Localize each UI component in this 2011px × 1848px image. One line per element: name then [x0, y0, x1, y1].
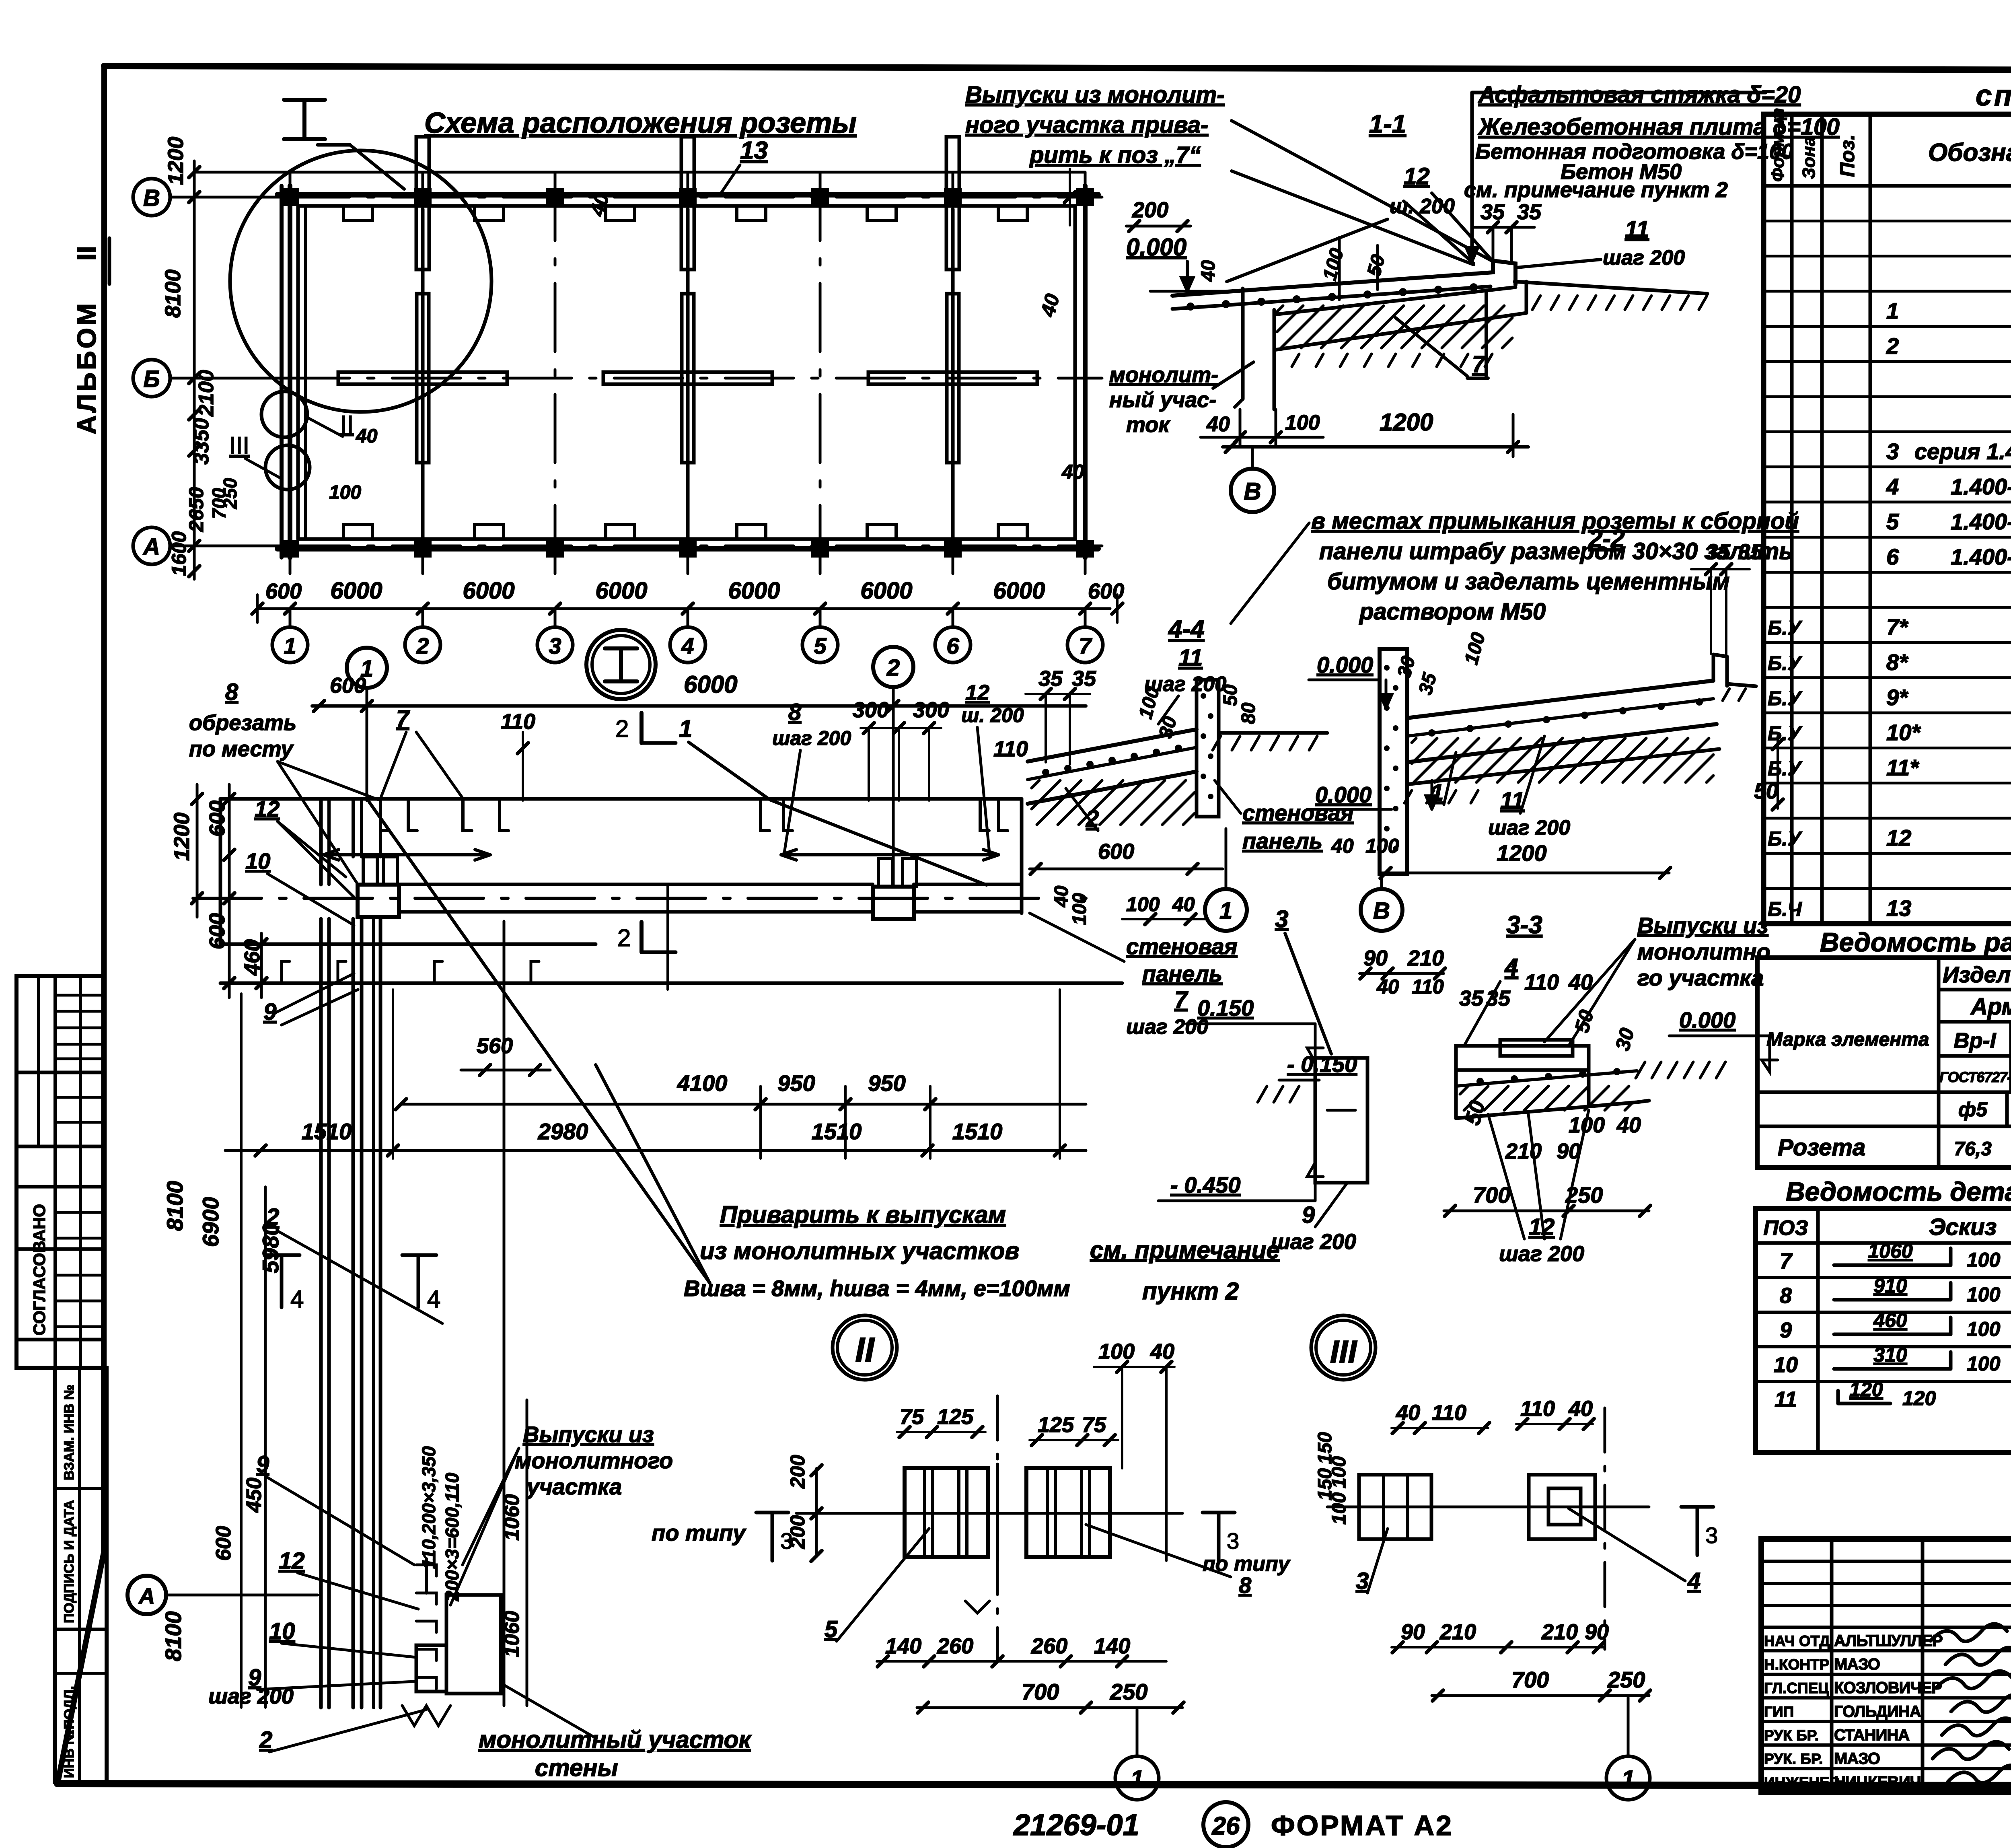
svg-text:35: 35 — [1517, 200, 1542, 224]
svg-text:110: 110 — [1524, 970, 1559, 994]
svg-text:8: 8 — [788, 699, 802, 725]
svg-text:200×3=600,110: 200×3=600,110 — [442, 1473, 463, 1601]
svg-text:Б.У: Б.У — [1768, 722, 1803, 745]
svg-text:ИНЖЕНЕР: ИНЖЕНЕР — [1764, 1774, 1840, 1791]
svg-text:4100: 4100 — [677, 1070, 728, 1096]
svg-text:40: 40 — [1331, 835, 1354, 857]
svg-text:9*: 9* — [1886, 685, 1908, 710]
svg-text:РУК БР.: РУК БР. — [1764, 1727, 1819, 1743]
svg-text:ток: ток — [1126, 413, 1170, 437]
svg-text:1: 1 — [1621, 1766, 1635, 1792]
svg-text:200: 200 — [786, 1455, 809, 1489]
svg-text:7*: 7* — [1886, 614, 1908, 640]
svg-text:Приварить к выпускам: Приварить к выпускам — [720, 1201, 1006, 1228]
svg-text:8100: 8100 — [161, 270, 185, 318]
svg-text:обрезать: обрезать — [189, 711, 296, 735]
svg-text:1.400-15: 1.400-15 — [1951, 509, 2011, 534]
svg-text:35: 35 — [1480, 200, 1505, 224]
svg-text:2: 2 — [1886, 333, 1899, 358]
svg-text:2: 2 — [615, 715, 629, 742]
svg-text:4: 4 — [290, 1286, 304, 1313]
svg-text:шаг 200: шаг 200 — [1603, 246, 1685, 270]
svg-text:2: 2 — [266, 1204, 279, 1230]
svg-text:250: 250 — [1110, 1679, 1147, 1704]
svg-text:участка: участка — [526, 1474, 622, 1499]
svg-text:панель: панель — [1142, 961, 1222, 986]
svg-text:7: 7 — [1079, 633, 1092, 659]
svg-text:6000: 6000 — [595, 578, 647, 604]
svg-text:В: В — [1244, 478, 1261, 505]
svg-text:II: II — [855, 1331, 875, 1369]
svg-text:1600: 1600 — [168, 531, 190, 576]
svg-text:6000: 6000 — [860, 578, 912, 604]
svg-text:1.400-15: 1.400-15 — [1951, 474, 2011, 499]
svg-text:210: 210 — [1407, 946, 1444, 970]
svg-text:140: 140 — [1094, 1634, 1130, 1658]
svg-text:Асфальтовая стяжка δ=20: Асфальтовая стяжка δ=20 — [1478, 82, 1801, 108]
svg-text:7: 7 — [1472, 351, 1486, 377]
svg-text:12: 12 — [1886, 825, 1911, 850]
svg-text:50: 50 — [1754, 779, 1778, 803]
svg-text:40: 40 — [356, 426, 378, 447]
svg-text:1510: 1510 — [952, 1119, 1003, 1144]
svg-text:600: 600 — [205, 913, 229, 949]
svg-text:Ведомость деталей: Ведомость деталей — [1786, 1177, 2011, 1206]
svg-text:100: 100 — [1328, 1492, 1350, 1525]
svg-text:40: 40 — [1206, 413, 1230, 436]
svg-text:ГЛ.СПЕЦ: ГЛ.СПЕЦ — [1764, 1680, 1829, 1696]
svg-text:210: 210 — [1505, 1139, 1542, 1163]
svg-text:стены: стены — [535, 1754, 618, 1781]
svg-text:ФОРМАТ А2: ФОРМАТ А2 — [1271, 1810, 1453, 1841]
svg-text:700: 700 — [1022, 1679, 1059, 1704]
svg-text:ГОЛЬДИНА: ГОЛЬДИНА — [1834, 1703, 1921, 1720]
svg-text:600: 600 — [212, 1526, 235, 1561]
svg-text:100: 100 — [1328, 1456, 1350, 1488]
svg-text:спецификация розеты: спецификация розеты — [1976, 80, 2011, 112]
svg-text:40: 40 — [1061, 461, 1084, 483]
svg-text:10: 10 — [245, 848, 270, 874]
svg-text:го участка: го участка — [1637, 965, 1764, 990]
svg-text:шаг 200: шаг 200 — [772, 727, 851, 749]
svg-text:ИНВ №ПОДЛ.: ИНВ №ПОДЛ. — [62, 1686, 77, 1778]
svg-text:100: 100 — [1967, 1318, 2001, 1340]
svg-text:450: 450 — [243, 1478, 266, 1513]
svg-text:120: 120 — [1849, 1378, 1883, 1401]
svg-text:8: 8 — [225, 679, 239, 705]
svg-text:III: III — [1330, 1334, 1357, 1370]
svg-text:ный учас-: ный учас- — [1109, 388, 1216, 412]
svg-text:4: 4 — [427, 1286, 440, 1313]
svg-text:300: 300 — [853, 698, 889, 722]
svg-text:9: 9 — [256, 1451, 269, 1478]
svg-text:III: III — [229, 432, 249, 459]
svg-text:стеновая: стеновая — [1126, 934, 1238, 959]
svg-text:см. примечание: см. примечание — [1090, 1237, 1280, 1264]
svg-text:Изделия арматурные: Изделия арматурные — [1943, 962, 2011, 987]
svg-text:II: II — [72, 246, 101, 261]
svg-text:7: 7 — [1780, 1249, 1793, 1273]
svg-text:по месту: по месту — [189, 737, 294, 761]
svg-text:АЛЬТШУЛЛЕР: АЛЬТШУЛЛЕР — [1834, 1632, 1943, 1650]
svg-text:Выпуски из монолит-: Выпуски из монолит- — [965, 82, 1225, 108]
svg-text:700: 700 — [1473, 1182, 1510, 1208]
svg-text:6000: 6000 — [728, 578, 780, 604]
svg-text:2100: 2100 — [195, 370, 218, 417]
svg-text:ГИП: ГИП — [1764, 1704, 1794, 1720]
svg-text:В: В — [143, 185, 160, 211]
svg-text:80: 80 — [1238, 702, 1259, 724]
svg-text:из монолитных участков: из монолитных участков — [700, 1237, 1019, 1264]
svg-text:40: 40 — [1376, 975, 1399, 998]
svg-text:600: 600 — [265, 579, 302, 603]
svg-text:10*: 10* — [1886, 720, 1921, 745]
svg-text:260: 260 — [1031, 1634, 1067, 1658]
svg-text:пункт 2: пункт 2 — [1142, 1278, 1239, 1305]
svg-text:100: 100 — [1967, 1352, 2001, 1375]
svg-text:2980: 2980 — [538, 1119, 588, 1144]
svg-text:3: 3 — [1356, 1568, 1369, 1594]
svg-text:1: 1 — [1219, 898, 1232, 924]
svg-text:40: 40 — [1172, 893, 1195, 916]
svg-text:110: 110 — [993, 737, 1028, 761]
svg-text:100: 100 — [1098, 1340, 1135, 1364]
svg-text:100: 100 — [1126, 893, 1160, 916]
svg-text:120: 120 — [1902, 1387, 1936, 1410]
svg-text:110,200×3,350: 110,200×3,350 — [418, 1446, 439, 1569]
svg-text:210: 210 — [1439, 1620, 1476, 1644]
svg-text:Б.Ч: Б.Ч — [1768, 898, 1802, 920]
svg-text:125: 125 — [937, 1405, 974, 1429]
svg-text:11*: 11* — [1886, 755, 1919, 780]
svg-text:Б.У: Б.У — [1768, 827, 1803, 850]
svg-text:0.000: 0.000 — [1679, 1007, 1735, 1033]
svg-text:МАЗО: МАЗО — [1834, 1750, 1880, 1768]
svg-text:см. примечание пункт 2: см. примечание пункт 2 — [1464, 178, 1728, 202]
svg-text:Марка элемента: Марка элемента — [1766, 1029, 1929, 1050]
svg-text:8: 8 — [1239, 1572, 1252, 1598]
svg-text:260: 260 — [937, 1634, 973, 1658]
svg-text:5: 5 — [814, 633, 827, 659]
svg-text:6900: 6900 — [198, 1197, 223, 1247]
svg-text:- 0.450: - 0.450 — [1170, 1172, 1240, 1198]
svg-text:0.150: 0.150 — [1197, 995, 1254, 1021]
svg-text:шаг 200: шаг 200 — [1488, 816, 1570, 840]
svg-text:75: 75 — [1082, 1413, 1106, 1437]
svg-text:монолитного: монолитного — [515, 1448, 673, 1473]
svg-text:А: А — [138, 1583, 155, 1609]
svg-text:310: 310 — [1873, 1344, 1907, 1366]
svg-text:9: 9 — [1780, 1318, 1792, 1342]
svg-text:12: 12 — [255, 796, 280, 821]
svg-text:НИЦКЕВИЧ: НИЦКЕВИЧ — [1834, 1774, 1921, 1791]
svg-text:3: 3 — [1227, 1528, 1239, 1554]
svg-text:ш. 200: ш. 200 — [961, 704, 1024, 726]
svg-text:7: 7 — [1174, 987, 1189, 1013]
svg-text:110: 110 — [1432, 1401, 1466, 1425]
svg-text:75: 75 — [900, 1405, 924, 1429]
svg-text:Железобетонная плита δ=100: Железобетонная плита δ=100 — [1477, 114, 1840, 140]
svg-text:35: 35 — [1459, 986, 1484, 1010]
svg-text:монолитный участок: монолитный участок — [479, 1726, 752, 1753]
svg-text:13: 13 — [1886, 895, 1911, 921]
svg-text:600: 600 — [205, 801, 229, 837]
svg-text:1200: 1200 — [1380, 409, 1433, 436]
svg-text:12: 12 — [965, 681, 989, 705]
svg-text:1: 1 — [679, 715, 692, 742]
svg-text:Розета: Розета — [1778, 1134, 1865, 1161]
svg-text:шаг 200: шаг 200 — [1126, 1015, 1208, 1039]
svg-text:6: 6 — [1886, 544, 1899, 569]
svg-text:СТАНИНА: СТАНИНА — [1834, 1726, 1909, 1744]
svg-text:А: А — [142, 534, 160, 560]
svg-text:2: 2 — [259, 1727, 272, 1753]
svg-text:11: 11 — [1625, 216, 1649, 243]
svg-text:6000: 6000 — [463, 578, 514, 604]
svg-text:1200: 1200 — [164, 137, 188, 185]
svg-text:3: 3 — [1886, 438, 1899, 464]
svg-text:битумом и заделать цементным: битумом и заделать цементным — [1327, 568, 1730, 595]
svg-text:250: 250 — [1607, 1667, 1645, 1692]
svg-text:серия 1.400-15: серия 1.400-15 — [1914, 438, 2011, 464]
svg-text:40: 40 — [1198, 260, 1219, 282]
svg-text:1: 1 — [284, 633, 296, 659]
svg-text:3: 3 — [780, 1528, 793, 1554]
svg-text:8: 8 — [1780, 1284, 1792, 1308]
svg-text:Б.У: Б.У — [1768, 617, 1803, 639]
svg-text:4: 4 — [1504, 954, 1518, 981]
svg-text:рить к поз „7“: рить к поз „7“ — [1029, 142, 1201, 168]
svg-text:ного участка прива-: ного участка прива- — [965, 112, 1208, 138]
svg-text:АЛЬБОМ: АЛЬБОМ — [72, 301, 101, 434]
svg-text:1510: 1510 — [812, 1119, 862, 1144]
svg-text:12: 12 — [1404, 163, 1430, 189]
svg-text:4-4: 4-4 — [1168, 615, 1205, 643]
svg-text:110: 110 — [1412, 975, 1444, 998]
svg-text:Эскиз: Эскиз — [1929, 1214, 1997, 1240]
svg-text:Б.У: Б.У — [1768, 687, 1803, 710]
svg-text:2650: 2650 — [185, 487, 208, 532]
svg-text:40: 40 — [1568, 1397, 1593, 1421]
svg-text:0.000: 0.000 — [1317, 652, 1373, 677]
svg-text:13: 13 — [740, 137, 768, 165]
svg-text:монолитно: монолитно — [1637, 939, 1770, 964]
svg-text:1: 1 — [1130, 1766, 1143, 1792]
svg-text:СОГЛАСОВАНО: СОГЛАСОВАНО — [30, 1204, 49, 1336]
svg-text:560: 560 — [477, 1034, 513, 1058]
svg-text:шаг 200: шаг 200 — [208, 1684, 294, 1708]
svg-text:300: 300 — [913, 698, 949, 722]
svg-text:стеновая: стеновая — [1242, 800, 1354, 825]
svg-text:3-3: 3-3 — [1506, 911, 1542, 939]
svg-text:6: 6 — [946, 633, 959, 659]
svg-text:1: 1 — [1886, 298, 1899, 323]
svg-text:по типу: по типу — [652, 1520, 746, 1545]
svg-text:МАЗО: МАЗО — [1834, 1656, 1880, 1673]
svg-text:II: II — [340, 411, 354, 438]
svg-text:ф5: ф5 — [1958, 1098, 1988, 1121]
svg-text:Поз.: Поз. — [1836, 134, 1859, 177]
svg-text:шаг 200: шаг 200 — [1271, 1230, 1356, 1254]
svg-text:РУК. БР.: РУК. БР. — [1764, 1751, 1823, 1767]
svg-text:110: 110 — [1520, 1397, 1555, 1421]
svg-text:140: 140 — [885, 1634, 921, 1658]
svg-text:6000: 6000 — [993, 578, 1045, 604]
svg-text:6000: 6000 — [330, 578, 382, 604]
svg-text:26: 26 — [1212, 1812, 1240, 1840]
svg-text:0.000: 0.000 — [1126, 234, 1186, 261]
svg-text:Н.КОНТР: Н.КОНТР — [1764, 1657, 1829, 1673]
svg-text:100: 100 — [329, 482, 361, 503]
svg-text:Б: Б — [143, 366, 160, 392]
svg-text:НАЧ ОТД: НАЧ ОТД — [1764, 1633, 1830, 1649]
svg-text:250: 250 — [220, 478, 241, 509]
svg-text:21269-01: 21269-01 — [1013, 1808, 1139, 1842]
svg-text:шаг 200: шаг 200 — [1499, 1242, 1584, 1266]
svg-text:2: 2 — [617, 924, 631, 951]
svg-text:11: 11 — [1775, 1387, 1797, 1412]
svg-text:2: 2 — [416, 633, 429, 659]
svg-text:6000: 6000 — [684, 671, 737, 698]
svg-text:9: 9 — [1302, 1202, 1315, 1228]
svg-text:3350: 3350 — [190, 418, 213, 465]
svg-text:КОЗЛОВИЧЕР: КОЗЛОВИЧЕР — [1834, 1679, 1942, 1697]
svg-text:76,3: 76,3 — [1954, 1138, 1992, 1160]
svg-text:Ведомость расхода стали на эл: Ведомость расхода стали на элемент, кг — [1820, 927, 2011, 957]
svg-text:Обозначение: Обозначение — [1928, 139, 2011, 167]
svg-text:8*: 8* — [1886, 649, 1908, 675]
svg-text:панели штрабу размером 30×30 з: панели штрабу размером 30×30 залить — [1319, 538, 1793, 564]
svg-text:ГОСТ6727-80: ГОСТ6727-80 — [1939, 1069, 2011, 1085]
svg-text:910: 910 — [1873, 1274, 1907, 1297]
svg-text:1060: 1060 — [1868, 1240, 1912, 1262]
svg-text:1200: 1200 — [170, 813, 194, 861]
svg-text:600: 600 — [1098, 840, 1134, 864]
svg-text:в местах примыкания розеты к с: в местах примыкания розеты к сборной — [1311, 508, 1799, 534]
svg-text:В: В — [1373, 898, 1390, 924]
svg-text:Выпуски из: Выпуски из — [523, 1422, 654, 1447]
svg-text:1200: 1200 — [1497, 840, 1547, 866]
svg-text:100: 100 — [1069, 893, 1090, 925]
svg-text:4: 4 — [681, 633, 694, 659]
svg-text:ПОДПИСЬ И ДАТА: ПОДПИСЬ И ДАТА — [62, 1500, 77, 1623]
svg-text:200: 200 — [1132, 198, 1168, 222]
svg-text:Зона: Зона — [1799, 136, 1819, 179]
svg-text:Вшва = 8мм, hшва = 4мм, e=100м: Вшва = 8мм, hшва = 4мм, e=100мм — [684, 1276, 1070, 1301]
svg-text:950: 950 — [777, 1070, 815, 1096]
svg-text:100: 100 — [1365, 835, 1399, 857]
svg-text:1.400-15: 1.400-15 — [1951, 544, 2011, 569]
svg-text:панель: панель — [1242, 828, 1322, 854]
svg-text:3: 3 — [549, 633, 561, 659]
svg-text:1-1: 1-1 — [1369, 109, 1406, 138]
svg-text:90: 90 — [1363, 946, 1388, 970]
svg-text:- 0.150: - 0.150 — [1287, 1052, 1357, 1077]
svg-text:10: 10 — [1774, 1353, 1798, 1377]
svg-text:950: 950 — [868, 1070, 905, 1096]
svg-text:Выпуски из: Выпуски из — [1637, 913, 1768, 938]
svg-text:40: 40 — [1396, 1401, 1420, 1425]
svg-text:100: 100 — [1967, 1249, 2001, 1271]
svg-text:210: 210 — [1541, 1620, 1578, 1644]
svg-text:35: 35 — [1486, 986, 1511, 1010]
svg-text:3: 3 — [1275, 905, 1288, 932]
svg-text:11: 11 — [1178, 645, 1203, 671]
svg-text:8100: 8100 — [160, 1611, 186, 1661]
svg-text:3: 3 — [1705, 1523, 1718, 1548]
svg-text:7: 7 — [396, 706, 410, 732]
svg-text:460: 460 — [1873, 1309, 1907, 1331]
svg-text:4: 4 — [1886, 474, 1899, 499]
svg-text:8100: 8100 — [162, 1181, 187, 1231]
svg-text:Б.У: Б.У — [1768, 757, 1803, 780]
svg-text:90: 90 — [1401, 1620, 1425, 1644]
svg-text:600: 600 — [330, 673, 366, 698]
svg-text:12: 12 — [279, 1548, 305, 1574]
svg-text:Вр-I: Вр-I — [1954, 1029, 1997, 1053]
svg-text:Схема расположения розеты: Схема расположения розеты — [424, 107, 857, 139]
svg-text:ПОЗ: ПОЗ — [1763, 1216, 1808, 1240]
svg-text:2: 2 — [886, 655, 900, 681]
svg-text:Арматура класса: Арматура класса — [1970, 994, 2011, 1020]
svg-text:Б.У: Б.У — [1768, 652, 1803, 674]
svg-text:110: 110 — [501, 710, 535, 734]
svg-text:100: 100 — [1967, 1283, 2001, 1306]
svg-text:4: 4 — [1687, 1568, 1701, 1594]
svg-text:700: 700 — [1511, 1667, 1549, 1692]
svg-text:1510: 1510 — [302, 1119, 352, 1144]
svg-text:100: 100 — [1285, 411, 1320, 434]
svg-text:10: 10 — [269, 1618, 295, 1644]
svg-text:600: 600 — [1088, 579, 1124, 603]
svg-text:раствором М50: раствором М50 — [1359, 599, 1546, 625]
svg-text:1: 1 — [1431, 780, 1443, 806]
svg-text:ВЗАМ. ИНВ №: ВЗАМ. ИНВ № — [62, 1385, 77, 1480]
svg-text:монолит-: монолит- — [1109, 363, 1218, 387]
svg-text:5: 5 — [1886, 509, 1899, 534]
svg-text:5: 5 — [825, 1616, 838, 1642]
svg-text:40: 40 — [1616, 1113, 1641, 1137]
